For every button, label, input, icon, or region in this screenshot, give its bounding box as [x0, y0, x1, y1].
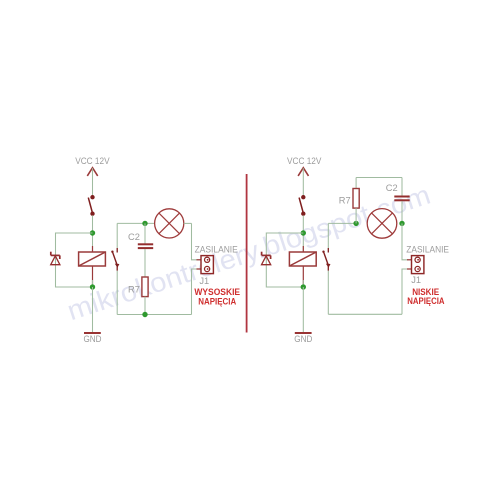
wire coil bottom to junction (left) — [92, 280, 94, 287]
wire zener branch (right) — [266, 233, 303, 287]
relay coil pin bottom (right) — [302, 266, 304, 284]
svg-text:C2: C2 — [386, 183, 398, 193]
svg-text:R7: R7 — [128, 284, 140, 294]
svg-text:ZASILANIE: ZASILANIE — [406, 245, 449, 255]
svg-text:J1: J1 — [199, 276, 209, 286]
switch S1 (left) — [88, 196, 94, 216]
wire loop left side upper (left) — [116, 223, 118, 248]
junction node (left, C2 branch top) — [142, 221, 147, 226]
wire C2 to lamp-right junction (right) — [401, 201, 403, 223]
wire zener branch (left) — [56, 233, 93, 287]
lamp (right) — [367, 209, 397, 239]
wire contact switch bottom to loop bottom (right) — [327, 271, 329, 315]
junction node (right, coil top / zener) — [301, 230, 306, 235]
wire loop left side lower (left) — [116, 271, 118, 315]
wire lamp to loop top-right (left) — [184, 222, 192, 224]
zener diode D2 (right) — [262, 252, 271, 265]
relay contact switch (left) — [111, 248, 119, 271]
wire C2 top riser (right) — [401, 178, 403, 196]
connector J1 pin 1 wire (right) — [407, 259, 418, 261]
switch S2 (right) — [299, 196, 305, 216]
capacitor C2 (right) — [394, 197, 409, 201]
watermark mikrokontrolery.blogspot.com — [63, 179, 434, 327]
junction node (right, lamp left / R7) — [353, 221, 358, 226]
svg-text:NAPIĘCIA: NAPIĘCIA — [198, 297, 236, 308]
wire loop right side upper to J1 pin1 (left) — [192, 223, 198, 259]
lamp (left) — [155, 209, 184, 238]
wire top of RC branch (right) — [356, 177, 402, 179]
junction node (left, coil bottom / zener) — [90, 284, 95, 289]
wire lamp-left junction to left riser (right) — [328, 222, 356, 224]
junction node (right, lamp right / C2) — [399, 221, 404, 226]
zener diode D1 (left) — [51, 252, 60, 265]
svg-text:VCC 12V: VCC 12V — [75, 156, 110, 166]
wire VCC arrow to switch S2 (right) — [302, 168, 304, 195]
power VCC arrow symbol (right) — [298, 168, 308, 176]
junction node (left, R7 branch bottom) — [142, 312, 147, 317]
wire J1 pin2 to loop right side lower (left) — [192, 269, 198, 315]
svg-text:ZASILANIE: ZASILANIE — [195, 245, 238, 255]
wire contact switch top to lamp level (right) — [327, 223, 329, 248]
junction node (right, coil bottom / zener) — [301, 284, 306, 289]
connector J1 pin 2 wire (right) — [407, 268, 418, 270]
power VCC arrow symbol (left) — [87, 168, 97, 176]
wire R7 to lamp-left junction (right) — [355, 208, 357, 223]
wire junction to ground (left) — [92, 287, 94, 333]
relay coil K1 (left) — [79, 252, 106, 266]
separator line — [246, 174, 248, 333]
wire switch S1 to relay coil (left) — [92, 215, 94, 252]
wire J1 pin2 to loop bottom-right (right) — [402, 269, 408, 314]
wire switch S2 to relay coil (right) — [302, 215, 304, 252]
wire R7 top branch riser (right) — [355, 178, 357, 189]
wire R7 to bottom junction (left) — [144, 297, 146, 315]
relay coil pin top (left) — [92, 246, 94, 252]
svg-text:NAPIĘCIA: NAPIĘCIA — [407, 296, 444, 307]
ground GND (left) — [84, 333, 102, 344]
wire VCC arrow to switch S1 (left) — [92, 168, 94, 195]
wire loop top-left to lamp (left) — [117, 222, 155, 224]
svg-text:GND: GND — [84, 334, 102, 344]
wire C2 to R7 (left) — [144, 249, 146, 277]
wire coil bottom to junction (right) — [302, 280, 304, 287]
wire loop bottom (left) — [117, 314, 191, 316]
svg-text:C2: C2 — [128, 232, 140, 242]
capacitor C2 (left) — [138, 244, 153, 248]
ground GND (right) — [294, 333, 312, 344]
svg-text:J1: J1 — [411, 275, 421, 285]
resistor R7 (left) — [142, 277, 148, 297]
wire loop bottom (right) — [328, 313, 402, 315]
svg-text:VCC 12V: VCC 12V — [287, 156, 322, 166]
relay contact switch (right) — [322, 248, 330, 271]
svg-text:R7: R7 — [339, 196, 351, 206]
wire lamp-right junction to J1 pin1 (right) — [402, 223, 408, 259]
resistor R7 (right) — [353, 189, 359, 209]
junction node (left, coil top / zener) — [90, 230, 95, 235]
relay coil pin top (right) — [302, 246, 304, 252]
connector J1 pin 2 wire (left) — [197, 268, 208, 270]
relay coil K2 (right) — [289, 252, 316, 266]
wire junction to ground (right) — [302, 287, 304, 333]
connector J1 pin 1 wire (left) — [197, 259, 208, 261]
relay coil pin bottom (left) — [92, 266, 94, 284]
wire junction to capacitor C2 (left) — [144, 223, 146, 243]
connector J1 (right) — [412, 256, 424, 274]
connector J1 (left) — [201, 256, 213, 274]
svg-text:GND: GND — [294, 334, 312, 344]
